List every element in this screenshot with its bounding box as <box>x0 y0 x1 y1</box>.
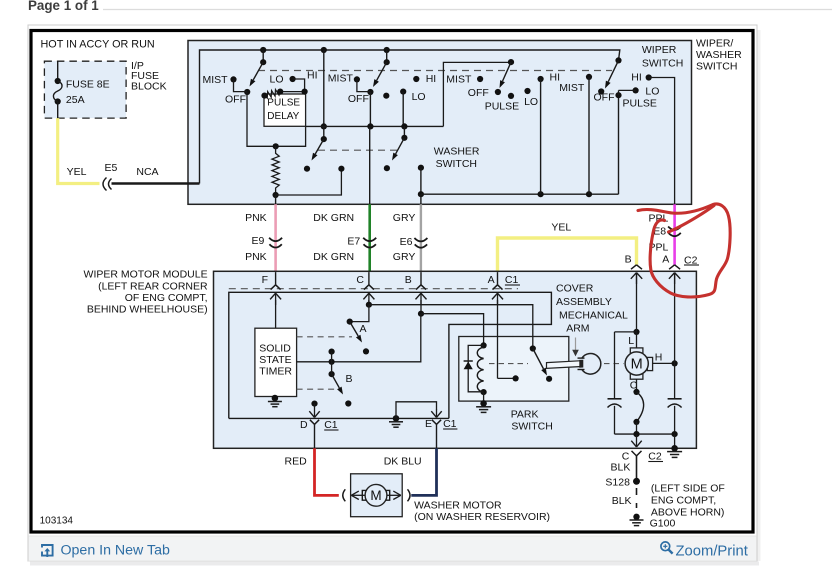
svg-text:H: H <box>655 352 663 364</box>
svg-text:G100: G100 <box>650 518 676 530</box>
svg-text:E9: E9 <box>252 235 265 247</box>
svg-text:STATE: STATE <box>259 354 291 366</box>
svg-text:PULSE: PULSE <box>485 101 519 113</box>
svg-text:Open In New Tab: Open In New Tab <box>61 542 170 558</box>
svg-text:LO: LO <box>524 96 538 108</box>
svg-text:ARM: ARM <box>566 323 589 335</box>
svg-text:C2: C2 <box>648 451 662 463</box>
svg-text:WIPER MOTOR MODULE: WIPER MOTOR MODULE <box>84 269 208 281</box>
svg-text:HI: HI <box>631 72 642 84</box>
svg-text:E: E <box>425 418 432 430</box>
svg-text:OFF: OFF <box>468 87 489 99</box>
svg-text:A: A <box>662 254 669 266</box>
svg-text:M: M <box>631 357 643 373</box>
svg-text:(LEFT SIDE OF: (LEFT SIDE OF <box>651 483 725 495</box>
svg-text:WASHER MOTOR: WASHER MOTOR <box>414 500 502 512</box>
svg-text:MIST: MIST <box>559 82 585 94</box>
svg-text:YEL: YEL <box>67 166 87 178</box>
svg-text:HOT IN ACCY OR RUN: HOT IN ACCY OR RUN <box>41 39 155 51</box>
svg-text:GRY: GRY <box>393 212 416 224</box>
svg-text:L: L <box>628 335 634 347</box>
svg-text:WIPER/: WIPER/ <box>696 38 733 50</box>
svg-text:COVER: COVER <box>556 283 594 295</box>
svg-text:C1: C1 <box>324 419 338 431</box>
svg-text:TIMER: TIMER <box>259 366 292 378</box>
svg-text:SOLID: SOLID <box>259 343 291 355</box>
svg-text:HI: HI <box>426 73 437 85</box>
svg-text:B: B <box>625 254 632 266</box>
svg-text:HI: HI <box>307 69 318 81</box>
svg-text:DK BLU: DK BLU <box>384 456 422 468</box>
svg-text:F: F <box>262 274 268 286</box>
svg-text:DK GRN: DK GRN <box>313 212 354 224</box>
svg-text:C1: C1 <box>443 418 457 430</box>
svg-text:LO: LO <box>645 86 659 98</box>
svg-text:PARK: PARK <box>511 409 539 421</box>
svg-text:BLOCK: BLOCK <box>131 80 167 92</box>
svg-text:BEHIND WHEELHOUSE): BEHIND WHEELHOUSE) <box>87 304 208 316</box>
svg-text:GRY: GRY <box>393 251 416 263</box>
svg-text:MIST: MIST <box>328 73 354 85</box>
svg-text:WASHER: WASHER <box>696 49 742 61</box>
svg-text:(ON WASHER RESERVOIR): (ON WASHER RESERVOIR) <box>414 511 550 523</box>
svg-text:103134: 103134 <box>40 516 74 527</box>
svg-text:B: B <box>405 274 412 286</box>
svg-text:25A: 25A <box>66 94 85 106</box>
svg-text:OFF: OFF <box>594 92 615 104</box>
svg-text:E6: E6 <box>400 236 413 248</box>
svg-text:OFF: OFF <box>225 94 246 106</box>
svg-text:PNK: PNK <box>245 251 267 263</box>
svg-text:S128: S128 <box>605 477 630 489</box>
svg-text:NCA: NCA <box>136 166 158 178</box>
svg-text:E5: E5 <box>105 162 118 174</box>
svg-text:FUSE 8E: FUSE 8E <box>66 79 110 91</box>
svg-text:PULSE: PULSE <box>267 98 300 109</box>
svg-text:SWITCH: SWITCH <box>642 58 683 70</box>
svg-text:C1: C1 <box>505 274 519 286</box>
svg-text:BLK: BLK <box>612 495 632 507</box>
svg-text:PULSE: PULSE <box>623 97 657 109</box>
svg-text:RED: RED <box>285 456 308 468</box>
svg-text:OFF: OFF <box>348 93 369 105</box>
svg-text:LO: LO <box>412 91 426 103</box>
svg-text:M: M <box>370 488 381 503</box>
svg-text:ENG COMPT,: ENG COMPT, <box>651 495 716 507</box>
svg-text:(LEFT REAR CORNER: (LEFT REAR CORNER <box>98 281 208 293</box>
svg-text:MIST: MIST <box>446 74 472 86</box>
svg-text:MIST: MIST <box>203 74 229 86</box>
svg-text:SWITCH: SWITCH <box>696 61 737 73</box>
svg-text:BLK: BLK <box>611 462 631 474</box>
svg-text:A: A <box>488 274 495 286</box>
svg-text:SWITCH: SWITCH <box>511 421 552 433</box>
svg-text:B: B <box>346 373 353 385</box>
svg-text:A: A <box>360 323 367 335</box>
svg-text:LO: LO <box>270 74 284 86</box>
svg-text:Zoom/Print: Zoom/Print <box>676 543 748 559</box>
svg-text:PNK: PNK <box>245 212 267 224</box>
svg-text:C: C <box>356 274 364 286</box>
svg-text:ASSEMBLY: ASSEMBLY <box>556 296 612 308</box>
svg-text:SWITCH: SWITCH <box>436 158 477 170</box>
svg-text:WASHER: WASHER <box>434 146 480 158</box>
svg-text:MECHANICAL: MECHANICAL <box>559 310 628 322</box>
svg-text:E7: E7 <box>347 236 360 248</box>
svg-text:WIPER: WIPER <box>642 44 677 56</box>
svg-text:DK GRN: DK GRN <box>313 251 354 263</box>
svg-text:YEL: YEL <box>551 222 571 234</box>
svg-text:OF ENG COMPT,: OF ENG COMPT, <box>125 292 208 304</box>
svg-text:ABOVE HORN): ABOVE HORN) <box>651 507 725 519</box>
svg-text:DELAY: DELAY <box>267 111 299 122</box>
svg-text:Page 1 of 1: Page 1 of 1 <box>28 0 99 13</box>
svg-text:D: D <box>300 419 308 431</box>
